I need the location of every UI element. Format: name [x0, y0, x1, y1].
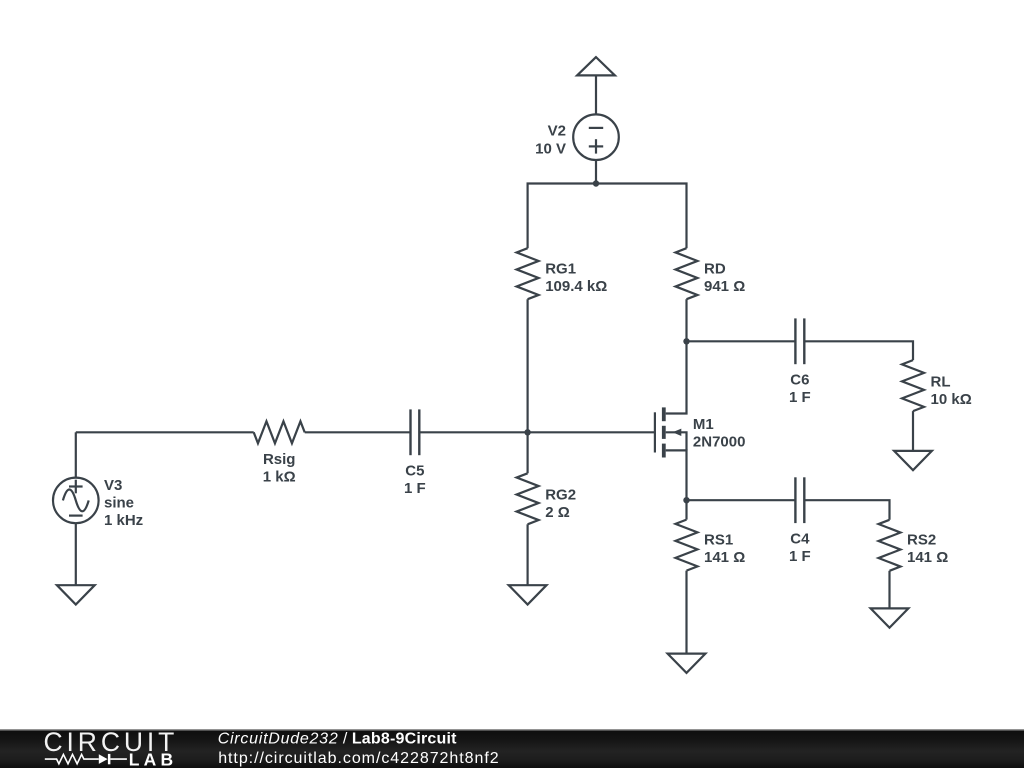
footer bar — [0, 729, 1024, 768]
wire RG2 to ground — [526, 524, 528, 585]
wire top rail — [528, 184, 687, 249]
wire RS1 to ground — [685, 571, 687, 654]
voltage source V2 — [573, 114, 619, 160]
svg-text:RD: RD — [704, 261, 726, 278]
capacitor C5 — [411, 409, 420, 455]
transistor M1 channel segments — [662, 407, 666, 457]
svg-text:V3: V3 — [104, 477, 122, 494]
svg-text:10 kΩ: 10 kΩ — [931, 391, 972, 408]
logo diode wire — [110, 758, 127, 760]
resistor RG2 — [517, 473, 539, 524]
svg-text:2N7000: 2N7000 — [693, 434, 746, 451]
svg-text:141 Ω: 141 Ω — [704, 549, 745, 566]
wire V3 to Rsig — [76, 431, 254, 433]
wire supply to V2 — [595, 75, 597, 114]
wire drain node to C6 — [687, 340, 796, 342]
svg-text:141 Ω: 141 Ω — [907, 549, 948, 566]
svg-text:V2: V2 — [548, 122, 566, 139]
svg-text:RS1: RS1 — [704, 532, 733, 549]
wire V3 to ground — [75, 523, 77, 585]
node: drain junction — [683, 338, 689, 344]
ground (V3) — [57, 585, 95, 604]
node: gate junction — [524, 429, 530, 435]
resistor RD — [676, 248, 698, 299]
wire gate node to M1 gate — [528, 431, 655, 433]
wire gate node to RG2 — [526, 432, 528, 473]
wire Rsig to C5 — [305, 431, 411, 433]
svg-text:1 kΩ: 1 kΩ — [263, 469, 296, 486]
svg-text:CircuitDude232 / Lab8-9Circuit: CircuitDude232 / Lab8-9Circuit — [218, 730, 457, 747]
resistor RS1 — [676, 520, 698, 571]
svg-text:1 F: 1 F — [404, 480, 426, 497]
svg-text:Rsig: Rsig — [263, 451, 296, 468]
wire RD to drain node — [685, 299, 687, 341]
transistor M1 gate bar — [654, 412, 656, 452]
wire source node to RS1 — [685, 500, 687, 519]
logo diode — [99, 754, 108, 764]
svg-text:C4: C4 — [790, 531, 810, 548]
ground (RS1) — [668, 654, 706, 673]
svg-text:109.4 kΩ: 109.4 kΩ — [545, 278, 607, 295]
transistor M1 source lead — [666, 450, 687, 500]
svg-text:LAB: LAB — [129, 749, 178, 768]
capacitor C4 — [795, 477, 804, 523]
wire RL to ground — [912, 411, 914, 451]
svg-text:1 F: 1 F — [789, 548, 811, 565]
voltage source V3 — [53, 478, 99, 524]
svg-text:http://circuitlab.com/c422872h: http://circuitlab.com/c422872ht8nf2 — [218, 750, 499, 767]
svg-text:10 V: 10 V — [535, 140, 566, 157]
svg-text:941 Ω: 941 Ω — [704, 278, 745, 295]
transistor M1 body arrow — [673, 429, 682, 436]
transistor M1 body lead — [666, 432, 687, 450]
logo resistor zigzag — [45, 754, 99, 763]
svg-text:sine: sine — [104, 495, 134, 512]
resistor RG1 — [517, 248, 539, 299]
svg-text:M1: M1 — [693, 416, 714, 433]
capacitor C6 — [795, 318, 804, 364]
wire source node to C4 — [687, 499, 796, 501]
resistor RL — [902, 360, 924, 411]
transistor M1 drain lead — [666, 341, 687, 413]
svg-text:RS2: RS2 — [907, 532, 936, 549]
wire V2 to top rail — [595, 160, 597, 184]
wire C5 to gate node — [419, 431, 527, 433]
wire C6 to RL — [804, 341, 913, 360]
power supply symbol V+ — [577, 57, 615, 75]
svg-text:C6: C6 — [790, 372, 809, 389]
ground (RG2) — [509, 585, 547, 604]
ground (RL) — [894, 451, 932, 470]
svg-text:C5: C5 — [405, 463, 424, 480]
svg-text:2 Ω: 2 Ω — [545, 504, 570, 521]
svg-text:1 kHz: 1 kHz — [104, 512, 143, 529]
resistor RS2 — [879, 520, 901, 571]
ground (RS2) — [871, 608, 909, 627]
node: source junction — [683, 497, 689, 503]
footer bar top edge — [0, 729, 1024, 731]
svg-text:1 F: 1 F — [789, 389, 811, 406]
resistor Rsig — [254, 421, 305, 443]
svg-text:RG1: RG1 — [545, 261, 576, 278]
svg-text:RG2: RG2 — [545, 486, 576, 503]
wire RS2 to ground — [888, 571, 890, 609]
wire C4 to RS2 — [804, 500, 889, 520]
wire RG1 to gate node — [526, 299, 528, 432]
svg-text:RL: RL — [931, 373, 951, 390]
wire V3 to gate row — [75, 432, 77, 477]
node: top rail junction — [593, 180, 599, 186]
